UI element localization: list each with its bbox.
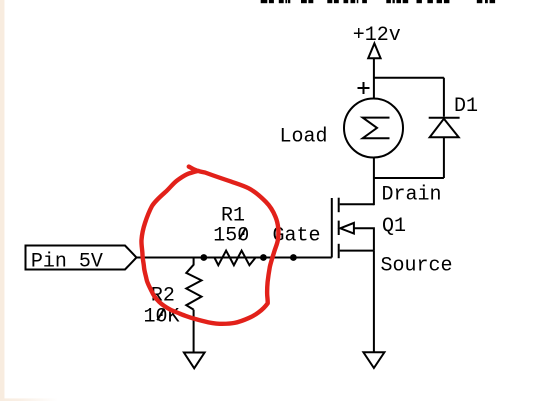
node junction dot left of R1 xyxy=(200,254,207,261)
Q1 body lead xyxy=(354,228,374,250)
Q1 body arrow xyxy=(340,223,354,234)
Q1 source lead xyxy=(340,250,374,252)
wire: pin flag to gate xyxy=(137,257,332,259)
transistor Q1 channel bottom bar xyxy=(338,244,340,258)
diode D1 cathode bar xyxy=(429,117,460,119)
wire: top node horizontal to diode branch xyxy=(374,77,444,79)
wire: +12v arrow to load circle top xyxy=(373,58,375,98)
Pin 5V input flag xyxy=(26,246,137,270)
svg-text:Load: Load xyxy=(280,126,328,149)
svg-text:150: 150 xyxy=(213,224,249,247)
title text (clipped at top of image) xyxy=(261,0,495,3)
svg-text:Source: Source xyxy=(381,254,453,277)
wire: R2 down to ground xyxy=(193,310,195,353)
+12v power arrow xyxy=(368,43,380,58)
page edge bottom strip xyxy=(0,398,58,401)
node junction dot right of R1 xyxy=(260,254,267,261)
svg-text:D1: D1 xyxy=(454,95,478,118)
transistor Q1 channel middle bar xyxy=(338,221,340,235)
wire: source down to ground xyxy=(373,251,375,353)
page edge left strip xyxy=(0,0,5,401)
sigma symbol inside load xyxy=(363,118,390,139)
wire: bottom node horizontal xyxy=(374,177,444,179)
ground (source) xyxy=(363,352,384,368)
slash of zero in 150 xyxy=(239,228,246,240)
load symbol (circle with sigma) xyxy=(344,99,403,158)
diode D1 triangle xyxy=(430,119,459,138)
transistor Q1 channel top bar xyxy=(338,198,340,213)
wire: load circle bottom to drain xyxy=(373,158,375,206)
wire: diode anode down to bottom node xyxy=(443,137,445,178)
slash of zero in 10K xyxy=(157,309,164,321)
svg-text:Q1: Q1 xyxy=(382,215,406,238)
svg-text:10K: 10K xyxy=(144,305,180,328)
node junction dot at gate net xyxy=(290,254,297,261)
wire: diode branch down to cathode bar xyxy=(443,78,445,117)
transistor Q1 gate line xyxy=(331,198,333,258)
ground (R2) xyxy=(184,353,205,369)
svg-text:Drain: Drain xyxy=(382,184,442,207)
red annotation circle (freehand) xyxy=(141,167,278,324)
resistor R2 tap and zigzag xyxy=(186,258,201,310)
resistor R1 zigzag xyxy=(214,251,255,266)
svg-text:+12v: +12v xyxy=(353,24,401,47)
svg-text:Pin 5V: Pin 5V xyxy=(31,251,103,274)
plus polarity mark xyxy=(358,82,370,94)
Q1 drain lead xyxy=(340,203,374,205)
